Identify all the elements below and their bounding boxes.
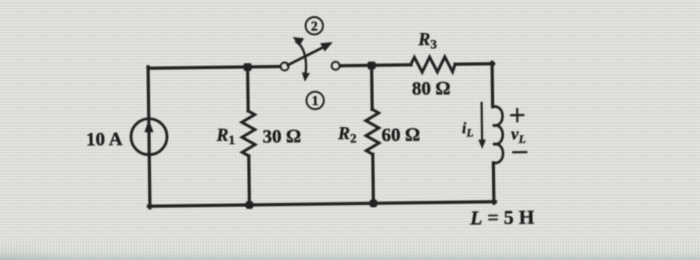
label minus sign xyxy=(513,151,526,153)
svg-text:iL: iL xyxy=(462,120,474,140)
switch blade xyxy=(287,42,333,65)
wire top-middle segment (switch right terminal to R3) xyxy=(340,63,411,67)
wire top-left segment xyxy=(148,67,280,69)
wire R2 branch bottom lead xyxy=(371,154,375,203)
svg-text:1: 1 xyxy=(312,93,319,108)
wire bottom xyxy=(148,202,495,207)
iL current arrow xyxy=(478,103,486,149)
switch motion arc arrow xyxy=(293,37,310,82)
current source 10 A xyxy=(131,119,167,155)
svg-text:60 Ω: 60 Ω xyxy=(381,125,420,147)
node junction top of R2 xyxy=(368,61,376,69)
wire R2 branch top lead xyxy=(370,65,374,109)
switch left terminal xyxy=(281,63,289,71)
svg-text:R2: R2 xyxy=(337,123,357,146)
inductor L coil xyxy=(493,106,503,163)
svg-text:L = 5 H: L = 5 H xyxy=(469,207,535,230)
wire top-right segment (R3 to corner) xyxy=(455,62,493,66)
svg-text:10 A: 10 A xyxy=(86,129,123,150)
label plus sign xyxy=(511,109,523,121)
svg-text:80 Ω: 80 Ω xyxy=(412,78,451,100)
switch right terminal xyxy=(332,62,340,70)
wire R1 branch top lead xyxy=(246,67,250,111)
switch position label 1 xyxy=(306,92,324,110)
svg-text:R1: R1 xyxy=(215,125,235,148)
wire R1 branch bottom lead xyxy=(247,156,251,205)
node junction top of R1 xyxy=(244,63,252,71)
wire right side upper xyxy=(490,62,494,106)
wire right side lower xyxy=(492,163,496,203)
wire left side xyxy=(148,67,150,208)
svg-text:30 Ω: 30 Ω xyxy=(262,126,301,148)
svg-text:vL: vL xyxy=(511,124,526,146)
node junction bottom of R1 xyxy=(245,201,253,209)
node junction bottom of R2 xyxy=(369,199,377,207)
resistor R2 xyxy=(366,109,380,154)
svg-text:R3: R3 xyxy=(417,29,437,52)
resistor R3 xyxy=(410,57,455,73)
switch position label 2 xyxy=(305,17,323,35)
resistor R1 xyxy=(242,111,256,156)
svg-text:2: 2 xyxy=(311,19,318,34)
